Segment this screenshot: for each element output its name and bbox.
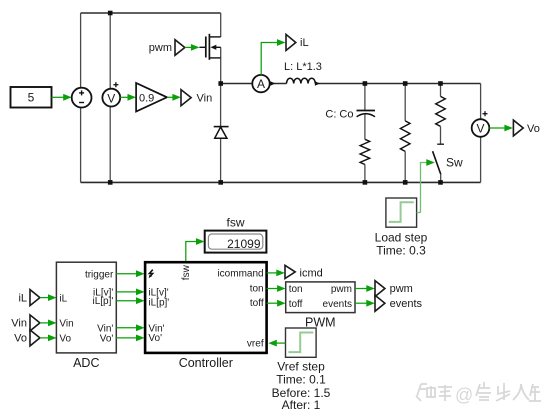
voltmeter Vm2: [472, 111, 490, 137]
svg-text:Vo: Vo: [527, 123, 540, 135]
switch Sw: [433, 144, 463, 182]
output port icmd: [285, 265, 323, 279]
svg-text:L: L*1.3: L: L*1.3: [284, 61, 322, 73]
wire green controller toff to PWM: [267, 300, 286, 307]
svg-text:After: 1: After: 1: [282, 398, 321, 412]
svg-text:pwm: pwm: [149, 42, 172, 54]
wire green ADC trigger to controller: [116, 270, 144, 277]
wire green Vin to ADC: [40, 320, 57, 327]
svg-text:ADC: ADC: [73, 356, 99, 370]
wire voltmeter V1 branch: [109, 13, 111, 89]
svg-text:Time: 0.1: Time: 0.1: [276, 373, 326, 387]
junction bottom rail / capacitor branch: [363, 180, 368, 185]
wire green ADC Vin' to controller: [116, 324, 144, 331]
voltmeter Vm1: [102, 82, 120, 106]
output port iL: [286, 34, 309, 50]
ADC block: [56, 262, 116, 370]
wire green Vo to ADC: [40, 335, 57, 342]
wire right vertical to voltmeter V2: [480, 84, 482, 120]
svg-text:Sw: Sw: [446, 156, 463, 170]
junction mid rail / switched resistor branch: [438, 81, 443, 86]
input port iL (bottom): [18, 290, 39, 306]
junction bottom rail / load resistor branch: [403, 180, 408, 185]
wire green constant to source: [52, 94, 72, 101]
wire green ADC iL[p]' to controller: [116, 297, 144, 304]
svg-text:Time: 0.3: Time: 0.3: [376, 244, 426, 258]
gain block 0.9: [136, 83, 167, 112]
resistor ESR (below C): [360, 139, 370, 182]
junction mid rail / capacitor branch: [363, 81, 368, 86]
svg-text:21099: 21099: [227, 237, 261, 251]
svg-text:Vo': Vo': [148, 333, 162, 344]
input port Vo (bottom): [14, 330, 40, 346]
output port events: [375, 295, 423, 311]
wire green controller ton to PWM: [267, 285, 286, 292]
svg-text:pwm: pwm: [331, 284, 352, 295]
svg-text:vref: vref: [247, 339, 264, 350]
svg-text:pwm: pwm: [390, 283, 413, 295]
Controller block: [145, 262, 267, 370]
svg-text:V: V: [476, 122, 484, 136]
resistor step-load branch: [436, 84, 446, 145]
svg-text:iL: iL: [18, 292, 27, 304]
wire green pwm to gate: [185, 44, 200, 51]
svg-text:events: events: [323, 299, 352, 310]
wire diode branch: [220, 84, 222, 127]
wire ammeter to inductor to cap node: [270, 83, 287, 85]
junction bottom rail / diode branch: [218, 180, 223, 185]
PWM block: [286, 282, 355, 330]
Load step block: [375, 198, 428, 258]
wire left vertical (source branch): [80, 13, 82, 88]
capacitor C: Co with label: [325, 84, 375, 140]
svg-text:iL[p]': iL[p]': [92, 296, 113, 307]
svg-text:Vo: Vo: [59, 334, 71, 345]
svg-text:Vo: Vo: [14, 333, 27, 345]
junction top rail / voltmeter branch: [108, 11, 113, 16]
wire green controller fsw to display: [186, 238, 205, 261]
junction bottom rail / switch branch: [438, 180, 443, 185]
svg-text:0.9: 0.9: [139, 92, 154, 104]
svg-text:Controller: Controller: [179, 356, 233, 370]
junction mid rail / load resistor branch: [403, 81, 408, 86]
wire green ADC Vo' to controller: [116, 335, 144, 342]
diode D: [214, 127, 229, 139]
output port pwm: [375, 281, 413, 297]
junction bottom rail / voltmeter branch: [108, 180, 113, 185]
wire top rail: [81, 12, 221, 14]
input port Vin (bottom): [11, 315, 40, 331]
wire MOSFET source to mid node: [220, 47, 222, 83]
wire green gain to Vin port: [167, 94, 181, 101]
svg-text:iL: iL: [59, 293, 67, 304]
constant block value 5: [11, 87, 52, 108]
wire green load step to switch: [421, 159, 435, 212]
watermark 知乎 @漫步人生: [416, 382, 541, 401]
controlled voltage source V: [72, 88, 92, 108]
svg-text:5: 5: [28, 91, 35, 105]
wire green voltmeter to gain: [120, 94, 136, 101]
svg-text:Vin: Vin: [11, 318, 27, 330]
wire green ammeter to iL port: [261, 39, 285, 75]
svg-text:toff: toff: [250, 298, 264, 309]
svg-text:icmd: icmd: [300, 268, 323, 280]
svg-text:ton: ton: [250, 283, 264, 294]
output port Vin: [181, 90, 212, 106]
junction mid node (MOSFET source / diode / ammeter): [218, 81, 223, 86]
wire green vref step to controller (leftward): [268, 340, 285, 347]
wire mid node to ammeter: [221, 83, 253, 85]
svg-text:@: @: [455, 385, 473, 405]
svg-text:trigger: trigger: [85, 269, 114, 280]
display block fsw: [205, 216, 267, 253]
svg-text:A: A: [257, 77, 265, 91]
svg-text:Vref step: Vref step: [277, 360, 325, 374]
svg-text:Vin: Vin: [59, 319, 73, 330]
wire green iL to ADC: [40, 294, 57, 301]
ammeter Am: [252, 75, 275, 92]
output port Vo: [513, 120, 539, 136]
wire bottom rail: [81, 181, 481, 183]
inductor L with value label: [284, 61, 322, 86]
svg-text:C: Co: C: Co: [325, 109, 353, 121]
svg-text:Vin: Vin: [197, 92, 213, 104]
svg-text:Load step: Load step: [375, 231, 428, 245]
svg-text:V: V: [107, 91, 115, 105]
wire green voltmeter to Vo port: [489, 125, 513, 132]
transistor MOSFET: [199, 34, 220, 60]
resistor load (middle branch): [400, 84, 410, 183]
svg-text:fsw: fsw: [227, 216, 245, 230]
svg-text:iL[p]': iL[p]': [148, 298, 169, 309]
wire green ADC iL[v]' to controller: [116, 289, 144, 296]
wire MOSFET drain from top rail: [220, 13, 222, 37]
wire green PWM events out: [355, 300, 375, 307]
svg-text:ton: ton: [289, 284, 303, 295]
Vref step block: [272, 328, 331, 412]
svg-text:Vo': Vo': [100, 334, 114, 345]
svg-text:iL: iL: [300, 37, 309, 49]
svg-text:fsw: fsw: [181, 264, 192, 280]
svg-text:events: events: [390, 298, 423, 310]
svg-text:icommand: icommand: [217, 269, 263, 280]
svg-text:toff: toff: [289, 299, 303, 310]
input port pwm: [149, 40, 185, 56]
wire green controller icommand to icmd port: [267, 270, 285, 277]
wire green PWM pwm out: [355, 285, 375, 292]
